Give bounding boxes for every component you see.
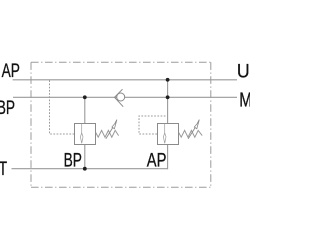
svg-text:U: U [237, 60, 250, 82]
svg-text:AP: AP [147, 149, 167, 172]
svg-text:BP: BP [64, 149, 82, 171]
svg-text:BP: BP [0, 97, 15, 119]
svg-text:AP: AP [2, 60, 20, 82]
svg-text:M: M [239, 89, 250, 112]
svg-text:T: T [0, 158, 7, 180]
